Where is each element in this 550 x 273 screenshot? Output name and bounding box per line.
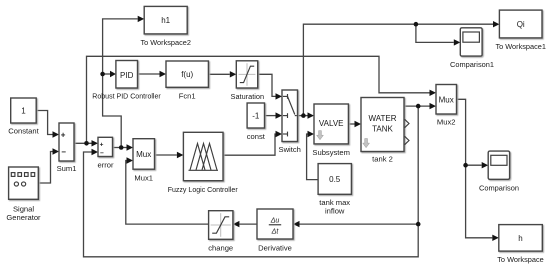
svg-text:Mux: Mux <box>439 95 454 104</box>
svg-text:change: change <box>208 244 233 253</box>
svg-text:Mux: Mux <box>136 150 151 159</box>
svg-text:To Workspace2: To Workspace2 <box>140 38 191 47</box>
svg-text:Mux1: Mux1 <box>134 173 153 182</box>
svg-text:To Workspace: To Workspace <box>497 255 544 264</box>
svg-text:TANK: TANK <box>372 124 393 133</box>
svg-text:Qi: Qi <box>517 20 525 29</box>
svg-text:Robust PID Controller: Robust PID Controller <box>92 92 161 101</box>
svg-text:-1: -1 <box>252 112 260 121</box>
svg-text:Saturation: Saturation <box>231 92 265 101</box>
svg-text:inflow: inflow <box>325 206 345 215</box>
svg-text:Subsystem: Subsystem <box>312 148 350 157</box>
svg-text:Fcn1: Fcn1 <box>179 91 196 100</box>
svg-text:Δu: Δu <box>270 218 280 225</box>
svg-text:Mux2: Mux2 <box>437 118 456 127</box>
svg-text:Generator: Generator <box>6 213 41 222</box>
svg-text:Constant: Constant <box>8 127 39 136</box>
svg-text:Comparison1: Comparison1 <box>450 60 494 69</box>
svg-text:0.5: 0.5 <box>329 175 341 184</box>
svg-text:+: + <box>61 131 66 140</box>
svg-text:Comparison: Comparison <box>479 183 519 192</box>
svg-text:+: + <box>100 142 104 149</box>
svg-text:error: error <box>97 161 114 170</box>
svg-text:WATER: WATER <box>369 114 397 123</box>
svg-text:VALVE: VALVE <box>319 119 344 128</box>
svg-text:Switch: Switch <box>279 145 301 154</box>
svg-text:f(u): f(u) <box>181 70 193 79</box>
svg-text:PID: PID <box>120 71 134 80</box>
svg-text:Derivative: Derivative <box>258 244 292 253</box>
svg-text:Fuzzy Logic Controller: Fuzzy Logic Controller <box>168 185 238 194</box>
svg-text:−: − <box>61 148 66 157</box>
svg-text:1: 1 <box>21 107 26 116</box>
svg-text:Δt: Δt <box>271 229 280 236</box>
svg-text:h1: h1 <box>161 16 170 25</box>
svg-text:h: h <box>518 234 522 243</box>
svg-text:const: const <box>247 132 266 141</box>
svg-text:−: − <box>100 150 104 157</box>
svg-text:Sum1: Sum1 <box>57 164 77 173</box>
svg-text:tank 2: tank 2 <box>372 155 393 164</box>
svg-text:To Workspace1: To Workspace1 <box>495 42 546 51</box>
